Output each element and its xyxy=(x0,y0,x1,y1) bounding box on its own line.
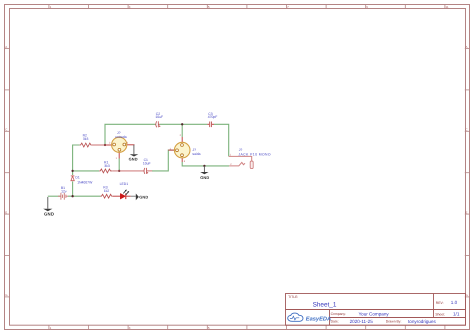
svg-text:D1: D1 xyxy=(75,175,79,179)
wire saida top xyxy=(181,124,183,137)
resistor R3 xyxy=(100,186,112,199)
ground GND battery xyxy=(43,197,54,216)
frame zone ticks left xyxy=(5,49,10,297)
connector J? entrada xyxy=(105,131,135,160)
svg-text:1N4007W: 1N4007W xyxy=(77,180,93,184)
junction node jack gnd xyxy=(203,165,205,167)
company/date divider xyxy=(330,317,466,319)
frame zone ticks top xyxy=(49,5,445,9)
svg-text:GND: GND xyxy=(44,211,54,216)
resistor R1 xyxy=(99,161,112,173)
svg-text:EasyEDA: EasyEDA xyxy=(306,316,331,322)
svg-text:JACK P10 MONO: JACK P10 MONO xyxy=(238,153,271,157)
wire battery row xyxy=(48,195,101,197)
svg-text:Company:: Company: xyxy=(331,312,347,316)
capacitor C2 xyxy=(155,112,163,128)
junction node C2-C3 xyxy=(181,123,183,125)
logo cell divider xyxy=(329,310,331,326)
wire R1 row xyxy=(73,150,175,171)
diode D1 xyxy=(71,175,93,184)
svg-text:470pF: 470pF xyxy=(208,115,218,119)
svg-text:E: E xyxy=(466,210,468,214)
resistor R2 xyxy=(80,133,92,147)
svg-text:Drawn By:: Drawn By: xyxy=(386,320,402,324)
svg-text:1.0: 1.0 xyxy=(451,300,458,305)
ground GND entrada xyxy=(129,145,139,162)
svg-text:LED1: LED1 xyxy=(120,182,129,186)
svg-text:J?: J? xyxy=(239,148,243,152)
svg-text:10uF: 10uF xyxy=(155,115,163,119)
svg-text:E: E xyxy=(5,210,7,214)
svg-text:12v: 12v xyxy=(61,189,67,193)
capacitor C1 xyxy=(112,158,152,174)
LED1 xyxy=(113,182,131,199)
svg-text:A: A xyxy=(466,45,468,49)
svg-text:3k3: 3k3 xyxy=(104,164,110,168)
svg-text:Sheet:: Sheet: xyxy=(435,313,445,317)
svg-text:REV:: REV: xyxy=(436,301,444,305)
svg-text:C: C xyxy=(466,128,468,132)
frame zone ticks right xyxy=(465,49,470,297)
wire R2 to junction xyxy=(92,144,105,146)
EasyEDA logo xyxy=(288,313,331,322)
title row divider xyxy=(286,309,466,311)
wire R2 row left vertical xyxy=(73,145,80,196)
ground GND saida/jack xyxy=(200,166,209,180)
junction node R2/top xyxy=(104,144,106,146)
wire saida bottom to jack xyxy=(182,162,229,166)
svg-text:Sheet_1: Sheet_1 xyxy=(313,301,337,308)
svg-text:1/1: 1/1 xyxy=(453,312,460,317)
svg-text:tonyrodrigues: tonyrodrigues xyxy=(408,319,437,324)
frame zone ticks bottom xyxy=(49,325,445,329)
svg-text:Date:: Date: xyxy=(331,320,339,324)
title block outline xyxy=(286,294,466,326)
svg-text:3k3: 3k3 xyxy=(83,137,89,141)
connector J? JACK P10 MONO xyxy=(229,148,271,168)
svg-text:GND: GND xyxy=(139,194,148,199)
svg-text:TITLE:: TITLE: xyxy=(288,295,298,299)
svg-text:GND: GND xyxy=(129,157,138,162)
battery B1 xyxy=(58,186,68,200)
capacitor C3 xyxy=(207,112,217,127)
svg-text:Your Company: Your Company xyxy=(359,311,390,316)
junction node D1 top xyxy=(71,170,73,172)
svg-text:entrada: entrada xyxy=(115,135,127,139)
wire top row xyxy=(105,124,229,156)
svg-text:2020-11-25: 2020-11-25 xyxy=(350,319,374,324)
svg-text:saida: saida xyxy=(192,152,200,156)
rev cell divider xyxy=(433,294,435,318)
svg-text:C: C xyxy=(5,128,7,132)
junction node entrada pin1 xyxy=(118,170,120,172)
ground GND led (rotated) xyxy=(131,194,149,201)
svg-text:1k2: 1k2 xyxy=(104,189,110,193)
svg-text:GND: GND xyxy=(200,175,209,180)
svg-text:10uF: 10uF xyxy=(143,162,151,166)
connector J? saida xyxy=(168,134,200,163)
junction node battery xyxy=(71,195,73,197)
svg-text:11: 11 xyxy=(446,5,449,9)
svg-text:A: A xyxy=(5,45,7,49)
